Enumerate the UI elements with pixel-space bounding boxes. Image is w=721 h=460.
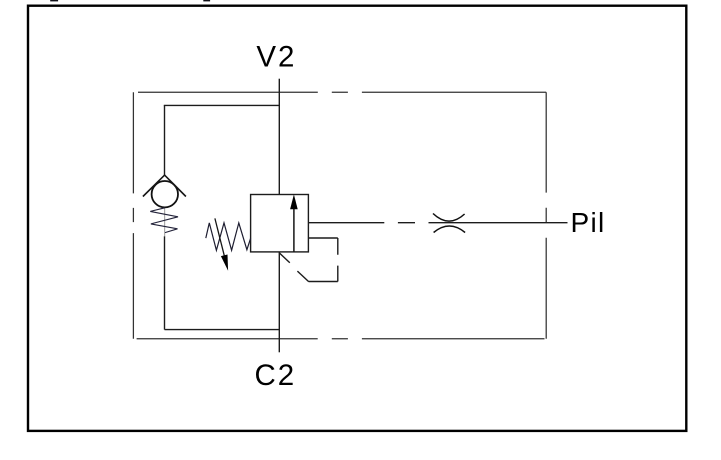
svg-text:Pil: Pil xyxy=(571,207,606,238)
svg-text:C2: C2 xyxy=(255,359,297,392)
svg-text:V2: V2 xyxy=(256,41,296,74)
